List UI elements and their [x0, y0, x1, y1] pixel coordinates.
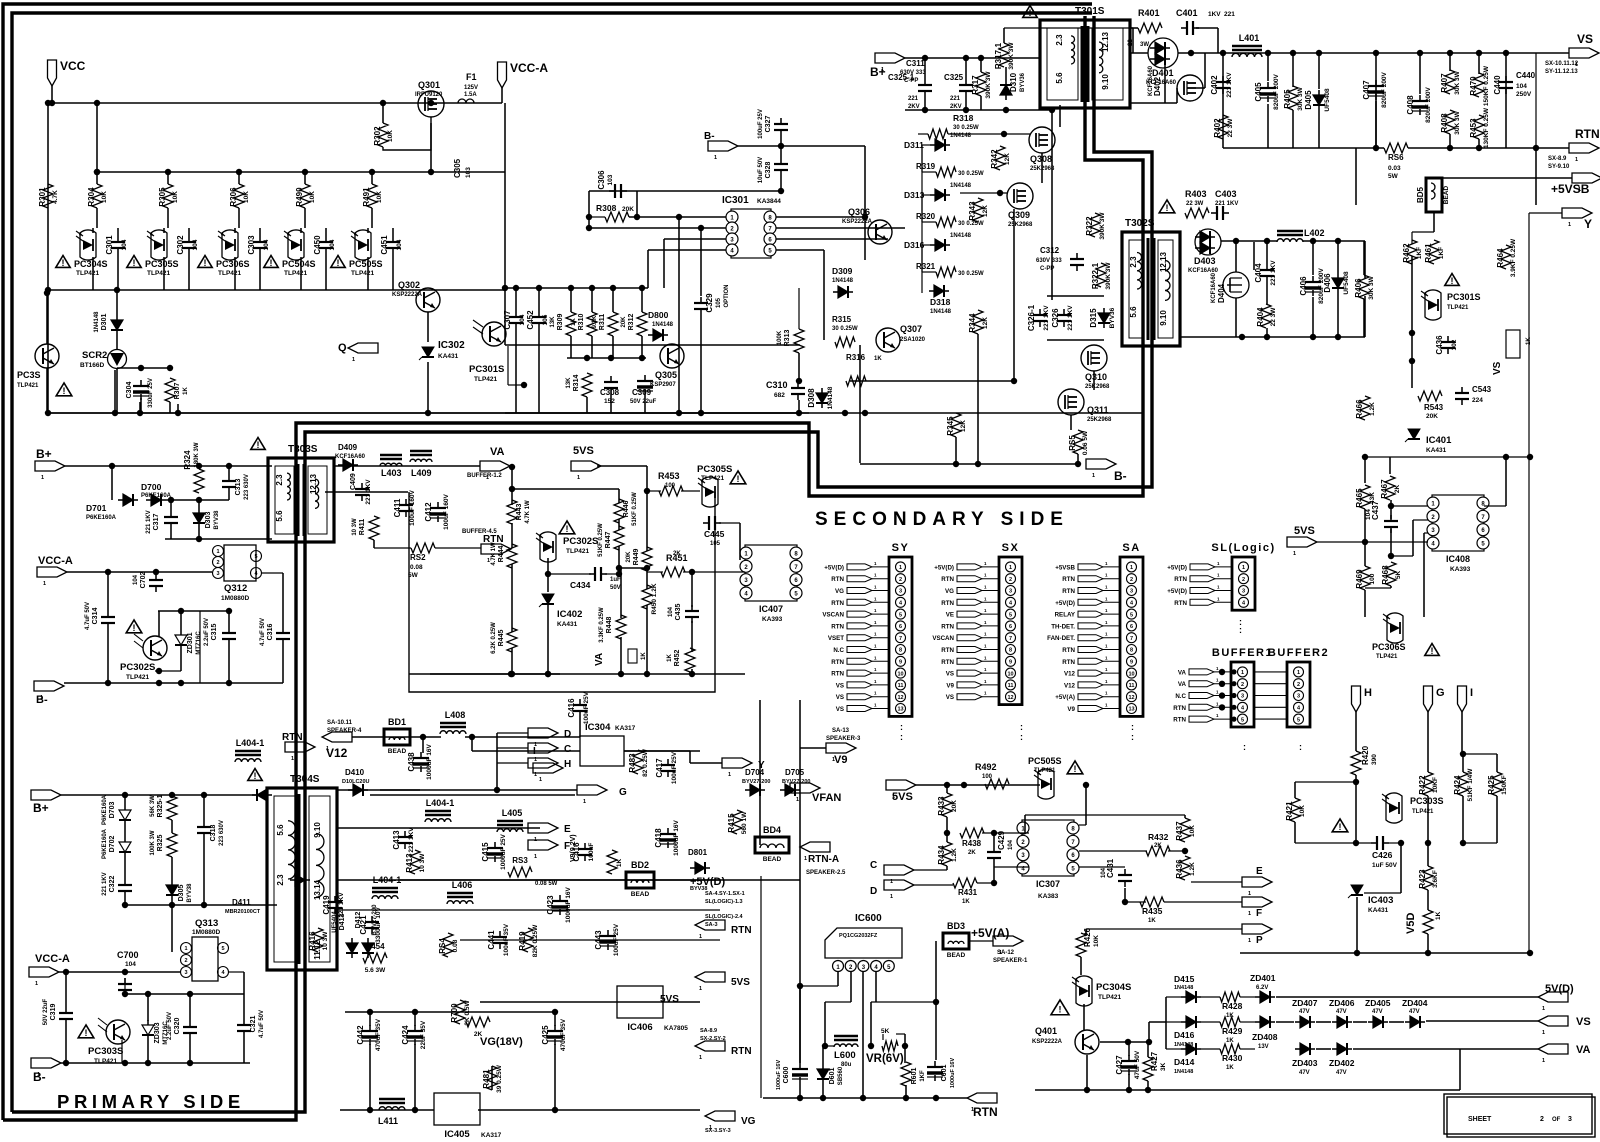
svg-text:D705: D705: [785, 768, 805, 777]
svg-text:V9: V9: [1067, 706, 1075, 713]
svg-text:820uF 200V: 820uF 200V: [1381, 71, 1388, 107]
svg-text:RTN: RTN: [973, 1105, 998, 1119]
svg-text:3: 3: [1242, 589, 1245, 595]
svg-text:10: 10: [1128, 671, 1134, 677]
svg-text:1N4148: 1N4148: [950, 233, 972, 239]
svg-text:C445: C445: [704, 529, 725, 539]
svg-text:+5V(D): +5V(D): [934, 564, 954, 571]
svg-text:R491: R491: [362, 187, 371, 207]
svg-text:C-PP: C-PP: [1040, 266, 1054, 272]
svg-text:D309: D309: [832, 266, 853, 276]
svg-text:C325: C325: [944, 73, 964, 82]
svg-text:104: 104: [519, 314, 526, 325]
svg-text:10K: 10K: [376, 191, 383, 203]
svg-text:100uF 25V: 100uF 25V: [671, 751, 678, 784]
svg-text:R448: R448: [606, 617, 613, 634]
svg-text:6.2K 0.25W: 6.2K 0.25W: [491, 622, 497, 654]
svg-text:C321: C321: [250, 1016, 257, 1033]
svg-text:1: 1: [699, 934, 702, 940]
svg-text:103: 103: [465, 167, 472, 178]
svg-text:1N4148: 1N4148: [94, 311, 100, 333]
svg-text:R310: R310: [578, 314, 585, 331]
svg-text:VCC-A: VCC-A: [35, 953, 70, 965]
svg-text:5: 5: [1297, 717, 1300, 723]
svg-text:R483: R483: [628, 753, 637, 773]
svg-text:PC301S: PC301S: [1447, 292, 1481, 302]
svg-text:1: 1: [1241, 670, 1244, 676]
svg-text:11: 11: [898, 683, 904, 689]
svg-text:1: 1: [899, 565, 902, 571]
svg-text:C700: C700: [117, 950, 139, 960]
svg-text:!: !: [737, 474, 740, 484]
svg-text:2K: 2K: [1394, 485, 1401, 494]
svg-text:9: 9: [899, 660, 902, 666]
svg-text:D409: D409: [338, 443, 358, 452]
svg-text:R411: R411: [359, 519, 366, 535]
svg-text:KSP2222A: KSP2222A: [1032, 1039, 1063, 1045]
svg-text:G: G: [619, 787, 627, 798]
svg-text:RTN: RTN: [941, 600, 954, 607]
svg-text:BYV27-200: BYV27-200: [742, 779, 770, 785]
svg-text:SCR2: SCR2: [82, 350, 107, 361]
svg-text:R311: R311: [599, 314, 606, 330]
svg-text:1000uF 16V: 1000uF 16V: [426, 743, 433, 779]
svg-text:20K: 20K: [621, 316, 627, 328]
svg-text:1K: 1K: [1226, 1065, 1234, 1071]
svg-text:SA-10.11: SA-10.11: [327, 720, 353, 726]
svg-text:VG(18V): VG(18V): [480, 1036, 523, 1048]
svg-text:C406: C406: [1299, 276, 1308, 296]
svg-text:KA431: KA431: [557, 621, 578, 628]
svg-text:221 1KV: 221 1KV: [1226, 72, 1233, 98]
svg-text:3.3KF 0.25W: 3.3KF 0.25W: [599, 607, 605, 643]
svg-text:Q305: Q305: [655, 370, 677, 380]
svg-text:RTN-A: RTN-A: [808, 854, 839, 865]
svg-text:2: 2: [1540, 1116, 1544, 1123]
svg-text:BD1: BD1: [388, 717, 406, 727]
svg-text:2.3: 2.3: [276, 874, 285, 886]
svg-text:R302: R302: [373, 126, 382, 146]
svg-text:ZD401: ZD401: [1250, 973, 1276, 983]
svg-text:UF5408: UF5408: [1324, 88, 1331, 112]
svg-text:2.3: 2.3: [275, 474, 284, 486]
svg-text:VG: VG: [835, 588, 844, 595]
svg-text:2: 2: [1297, 682, 1300, 688]
svg-text:1: 1: [1542, 1030, 1545, 1036]
svg-text:ZD303: ZD303: [154, 1022, 161, 1043]
svg-text:C427: C427: [1115, 1055, 1124, 1075]
svg-text:SX: SX: [1002, 542, 1020, 554]
svg-text:12.13: 12.13: [309, 473, 318, 494]
svg-text:5.6 3W: 5.6 3W: [365, 967, 386, 974]
svg-text:G: G: [1436, 687, 1445, 699]
svg-text:C303: C303: [247, 235, 256, 255]
svg-text:1.2K: 1.2K: [951, 848, 958, 862]
svg-text:20K: 20K: [626, 551, 632, 563]
svg-text:30 0.25W: 30 0.25W: [832, 326, 858, 332]
svg-text:R425: R425: [1487, 775, 1496, 795]
svg-text:R342: R342: [990, 149, 999, 169]
svg-text:51KF 0.25W: 51KF 0.25W: [598, 523, 604, 557]
svg-text:TLP421: TLP421: [1412, 809, 1434, 815]
svg-text:D700: D700: [141, 482, 162, 492]
svg-text:VS: VS: [946, 671, 954, 678]
svg-text:SX-8.9: SX-8.9: [1548, 156, 1567, 162]
svg-text:1KF: 1KF: [1438, 247, 1445, 259]
svg-text:!: !: [337, 258, 340, 268]
svg-text:B+: B+: [36, 447, 52, 461]
svg-text:VS: VS: [836, 694, 844, 701]
svg-text:C322: C322: [109, 876, 116, 893]
svg-text:12K: 12K: [960, 420, 967, 432]
svg-text:!: !: [1074, 764, 1077, 774]
svg-text:KA317: KA317: [481, 1132, 502, 1139]
svg-text:C440: C440: [1516, 71, 1536, 80]
svg-text:1: 1: [184, 946, 187, 952]
svg-text:51KF 0.25W: 51KF 0.25W: [632, 492, 638, 526]
svg-text:7: 7: [899, 636, 902, 642]
svg-text:TLP421: TLP421: [218, 270, 242, 277]
svg-text:C413: C413: [392, 830, 401, 850]
svg-text:BYV36: BYV36: [1109, 307, 1116, 328]
svg-text:PC302S: PC302S: [120, 662, 155, 673]
svg-text:C438: C438: [407, 752, 416, 772]
svg-text:D414: D414: [1174, 1057, 1195, 1067]
svg-text:R407: R407: [1440, 73, 1449, 93]
svg-text:D311: D311: [904, 140, 924, 150]
svg-text:D410: D410: [345, 768, 365, 777]
svg-text:P6KE160A: P6KE160A: [102, 794, 108, 825]
svg-text:RTN: RTN: [831, 671, 844, 678]
svg-text:390: 390: [1371, 754, 1378, 765]
svg-text:2: 2: [1130, 577, 1133, 583]
svg-text:R426: R426: [1083, 927, 1092, 947]
svg-text:100uF 160V: 100uF 160V: [409, 489, 416, 525]
svg-text:D310: D310: [1009, 72, 1018, 92]
svg-text:RTN: RTN: [1062, 647, 1075, 654]
svg-text:RS4: RS4: [438, 938, 447, 954]
svg-text:VA: VA: [1576, 1044, 1591, 1056]
svg-text:C309: C309: [632, 388, 652, 397]
svg-text:Q313: Q313: [195, 918, 218, 929]
svg-text:R438: R438: [962, 839, 982, 848]
svg-text:!: !: [1431, 646, 1434, 656]
svg-text:9.1K: 9.1K: [592, 315, 598, 328]
svg-text:4.7K: 4.7K: [52, 190, 59, 204]
svg-text:VCC-A: VCC-A: [38, 555, 73, 567]
svg-text:C403: C403: [1215, 189, 1237, 199]
svg-text:2K: 2K: [968, 850, 976, 856]
svg-text:C327: C327: [765, 116, 772, 133]
svg-text:R413: R413: [405, 853, 414, 873]
svg-text::: :: [1020, 732, 1023, 742]
svg-text:KSP2222A: KSP2222A: [392, 292, 423, 298]
svg-text:1000uF 16V: 1000uF 16V: [776, 1060, 782, 1091]
svg-text:F: F: [1256, 908, 1262, 919]
svg-text:390K 3W: 390K 3W: [1105, 262, 1112, 290]
svg-text:39 0.25W: 39 0.25W: [496, 1064, 503, 1093]
svg-text:L403: L403: [381, 468, 402, 478]
svg-text:D801: D801: [688, 848, 708, 857]
svg-text:B-: B-: [36, 694, 48, 706]
svg-text:IC405: IC405: [444, 1129, 470, 1140]
svg-text:VFAN: VFAN: [812, 792, 841, 804]
svg-text:R315: R315: [832, 315, 852, 324]
svg-text:D403: D403: [1194, 256, 1216, 266]
svg-text:25K2968: 25K2968: [1087, 417, 1112, 423]
svg-text:VCC-A: VCC-A: [510, 61, 548, 75]
svg-text:50V 22uF: 50V 22uF: [43, 998, 49, 1025]
svg-text:TLP421: TLP421: [1376, 654, 1398, 660]
svg-text:C451: C451: [380, 235, 389, 255]
svg-text:R435: R435: [1142, 906, 1163, 916]
svg-text:R453: R453: [1469, 118, 1478, 138]
svg-text:4.7uF 50V: 4.7uF 50V: [85, 602, 91, 630]
svg-text:D318: D318: [930, 297, 951, 307]
svg-text:F1: F1: [466, 72, 477, 82]
svg-text:470uF 35V: 470uF 35V: [375, 1018, 382, 1051]
svg-text:T301S: T301S: [1075, 6, 1105, 17]
svg-text:H: H: [564, 759, 571, 770]
svg-text:R445: R445: [498, 630, 505, 647]
svg-text:V12: V12: [1064, 671, 1076, 678]
svg-text:1K: 1K: [667, 653, 673, 661]
svg-text:12: 12: [1007, 695, 1013, 701]
svg-text:R325: R325: [157, 835, 164, 852]
svg-text:250V: 250V: [1516, 91, 1532, 98]
svg-text:47V: 47V: [1372, 1009, 1383, 1015]
svg-text:1000uF 16V: 1000uF 16V: [673, 819, 680, 855]
svg-text:PC304S: PC304S: [74, 259, 108, 269]
svg-text:1: 1: [1248, 911, 1251, 917]
svg-text:BEAD: BEAD: [631, 891, 650, 898]
svg-text:1: 1: [1297, 670, 1300, 676]
svg-text:R405: R405: [1283, 89, 1292, 109]
svg-text:R428: R428: [1222, 1001, 1243, 1011]
svg-text:ZD404: ZD404: [1402, 998, 1428, 1008]
svg-text:100K: 100K: [777, 330, 783, 345]
svg-text:Q: Q: [338, 342, 347, 354]
svg-text:C405: C405: [1254, 82, 1263, 102]
svg-text:T304S: T304S: [290, 774, 320, 785]
svg-text:R423: R423: [1418, 869, 1427, 889]
svg-text:D405: D405: [1304, 90, 1313, 110]
svg-text:630V 333: 630V 333: [900, 70, 926, 76]
svg-text::: :: [1243, 742, 1246, 752]
svg-text:47uF 50V: 47uF 50V: [1134, 1050, 1141, 1079]
svg-text:10 3W: 10 3W: [322, 931, 329, 951]
svg-text:221 1KV: 221 1KV: [408, 827, 415, 853]
svg-text:20K: 20K: [622, 206, 634, 213]
svg-text:13K: 13K: [550, 316, 556, 328]
svg-text:3: 3: [1297, 694, 1300, 700]
svg-text:RTN: RTN: [1062, 588, 1075, 595]
svg-text:6: 6: [1009, 624, 1012, 630]
svg-text:P6KE160A: P6KE160A: [86, 515, 117, 521]
svg-text:630V 333: 630V 333: [1036, 258, 1062, 264]
svg-text:R401: R401: [1138, 8, 1160, 18]
svg-text:R408: R408: [1440, 113, 1449, 133]
svg-text:10K: 10K: [101, 191, 108, 203]
svg-text:1M0880D: 1M0880D: [192, 929, 220, 936]
svg-text:221 1KV: 221 1KV: [1043, 305, 1050, 331]
svg-text:SY: SY: [892, 542, 910, 554]
svg-text:OPTION: OPTION: [724, 284, 730, 307]
svg-text:D308: D308: [807, 388, 816, 408]
svg-text:1: 1: [216, 549, 219, 555]
svg-text:L404-1: L404-1: [236, 738, 265, 748]
svg-text:Q312: Q312: [224, 583, 247, 594]
svg-text:5VS: 5VS: [731, 977, 750, 988]
svg-text:5.6: 5.6: [275, 510, 284, 522]
svg-text:0.08 5W: 0.08 5W: [535, 881, 558, 887]
svg-text:R467: R467: [1380, 479, 1389, 499]
svg-text:25K2968: 25K2968: [1008, 222, 1033, 228]
svg-text:R461: R461: [1424, 243, 1433, 263]
svg-text:C-PP: C-PP: [904, 78, 918, 84]
svg-text:R446: R446: [623, 501, 630, 518]
svg-text:6.2V: 6.2V: [1256, 985, 1268, 991]
svg-text:10 3W: 10 3W: [419, 853, 426, 873]
svg-text:TLP421: TLP421: [701, 475, 725, 482]
svg-text:IC401: IC401: [1426, 435, 1452, 446]
svg-text:100uF 160V: 100uF 160V: [443, 493, 450, 529]
svg-text:11: 11: [1129, 683, 1135, 689]
svg-text:3: 3: [1568, 1116, 1572, 1123]
svg-text:BUFFER-1.2: BUFFER-1.2: [467, 473, 502, 479]
svg-text:C326: C326: [1051, 308, 1060, 328]
svg-text:D703: D703: [109, 802, 116, 819]
svg-text:223 630V: 223 630V: [219, 820, 225, 846]
svg-text:1: 1: [534, 854, 537, 860]
svg-text:R345: R345: [946, 416, 955, 436]
svg-text:104: 104: [1516, 83, 1527, 90]
svg-text:KA431: KA431: [1368, 907, 1389, 914]
svg-text:C312: C312: [1040, 246, 1060, 255]
svg-text:1: 1: [1575, 157, 1578, 163]
svg-text:223 630V: 223 630V: [244, 474, 250, 500]
svg-text:BD4: BD4: [763, 825, 781, 835]
svg-text:1N4148: 1N4148: [827, 386, 834, 409]
svg-text:KA383: KA383: [1038, 893, 1059, 900]
svg-text:130KF 0.25W: 130KF 0.25W: [1483, 107, 1490, 148]
svg-text:30 0.25W: 30 0.25W: [958, 171, 984, 177]
svg-text:R307: R307: [174, 383, 181, 400]
svg-text:Y: Y: [758, 760, 765, 771]
svg-text:RTN: RTN: [1062, 576, 1075, 583]
svg-text:1.5A: 1.5A: [464, 92, 477, 98]
svg-text:47V: 47V: [1336, 1009, 1347, 1015]
svg-text:C326-1: C326-1: [1027, 304, 1036, 331]
svg-text:1K: 1K: [1226, 1038, 1234, 1044]
svg-text:SPEAKER-2.5: SPEAKER-2.5: [806, 870, 846, 876]
svg-text:C417: C417: [655, 758, 664, 778]
svg-text:Q309: Q309: [1008, 210, 1030, 220]
svg-text:RS3: RS3: [512, 856, 528, 865]
svg-text:1K: 1K: [183, 386, 189, 394]
svg-text:R403: R403: [1185, 189, 1207, 199]
svg-text:PC505S: PC505S: [1028, 756, 1062, 766]
svg-text:Q310: Q310: [1085, 372, 1107, 382]
svg-text:100uF: 100uF: [588, 843, 595, 862]
svg-text:H: H: [1364, 687, 1372, 699]
svg-text:12.13: 12.13: [1159, 251, 1168, 272]
svg-text:UF5408: UF5408: [1343, 271, 1350, 295]
svg-text:2.3: 2.3: [1129, 256, 1138, 268]
svg-text:100: 100: [982, 774, 993, 780]
svg-text::: :: [900, 732, 903, 742]
svg-text:R469: R469: [1355, 569, 1364, 589]
svg-text:ZD403: ZD403: [1292, 1058, 1318, 1068]
svg-text:PQ1CG2032FZ: PQ1CG2032FZ: [839, 933, 878, 939]
svg-text:5: 5: [221, 946, 224, 952]
svg-text:100K 3W: 100K 3W: [150, 830, 156, 855]
svg-text:VSCAN: VSCAN: [822, 612, 844, 619]
svg-text:SA: SA: [1122, 542, 1140, 554]
svg-text:RTN: RTN: [831, 600, 844, 607]
svg-text:C418: C418: [654, 828, 663, 848]
svg-text:C434: C434: [570, 580, 591, 590]
svg-text:C412: C412: [424, 502, 433, 522]
svg-text:D303: D303: [205, 512, 212, 529]
svg-text:C314: C314: [92, 608, 99, 625]
svg-text:!: !: [1059, 1005, 1062, 1015]
svg-text:105: 105: [542, 314, 549, 325]
svg-text:4.7K 1W: 4.7K 1W: [525, 500, 531, 524]
svg-text:PC302S: PC302S: [563, 536, 598, 547]
svg-text:!: !: [204, 258, 207, 268]
svg-text:1: 1: [804, 856, 807, 862]
svg-text:VR(6V): VR(6V): [866, 1053, 904, 1065]
svg-text:R317: R317: [971, 75, 980, 95]
svg-text:UF5404: UF5404: [332, 911, 338, 933]
svg-text:13: 13: [897, 707, 903, 713]
svg-text:OF: OF: [1552, 1117, 1561, 1123]
svg-text:BYV38: BYV38: [214, 510, 220, 530]
svg-text:TLP421: TLP421: [17, 383, 39, 389]
svg-text:C319: C319: [50, 1004, 57, 1021]
svg-text:5: 5: [1009, 612, 1012, 618]
svg-text:IC408: IC408: [1446, 554, 1470, 564]
svg-text:R402: R402: [1213, 118, 1222, 138]
svg-text:20K: 20K: [951, 800, 958, 812]
svg-text:1: 1: [890, 894, 893, 900]
svg-text:PC303S: PC303S: [88, 1046, 123, 1057]
svg-text:BEAD: BEAD: [1443, 185, 1450, 204]
svg-text:13.14: 13.14: [313, 879, 322, 900]
svg-text:221: 221: [950, 96, 961, 102]
svg-text:1.2K: 1.2K: [1189, 862, 1196, 876]
svg-text:R453: R453: [658, 471, 680, 481]
svg-text:1uF 50V: 1uF 50V: [1372, 862, 1398, 869]
svg-text:R322: R322: [1085, 216, 1094, 236]
svg-text:50V 22uF: 50V 22uF: [630, 399, 657, 405]
svg-text:C316: C316: [267, 624, 274, 641]
svg-text:R490: R490: [295, 187, 304, 207]
svg-text:VCC: VCC: [60, 59, 86, 73]
svg-text:R321: R321: [916, 262, 936, 271]
svg-text:BEAD: BEAD: [388, 748, 407, 755]
svg-text:SY-11.12.13: SY-11.12.13: [1545, 69, 1578, 75]
svg-text:C: C: [870, 860, 877, 871]
svg-text:SPEAKER-4: SPEAKER-4: [327, 728, 362, 734]
svg-text:D404: D404: [1217, 283, 1226, 303]
svg-text:1: 1: [577, 475, 580, 481]
svg-text:10K: 10K: [1093, 935, 1100, 947]
svg-text:30K 3W: 30K 3W: [1454, 70, 1461, 94]
svg-text:9: 9: [1130, 660, 1133, 666]
svg-text:R422: R422: [1418, 775, 1427, 795]
